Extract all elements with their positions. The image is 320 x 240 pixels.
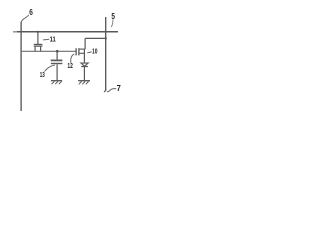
node: junction of transistor Q11 gate with bus [37,31,39,33]
transistor Q11 drain stub [40,47,42,52]
wire: left rail (net 6) [20,22,22,111]
right rail bottom hook [104,89,106,92]
svg-text:13: 13 [40,70,45,79]
svg-text:6: 6 [29,8,33,17]
ground under C13 [51,81,62,85]
transistor Q10 bottom stub [80,52,85,54]
label 10 leader [87,52,91,53]
label 7 leader [107,89,116,92]
diode D12 top lead [83,49,85,62]
label 13 leader [45,65,55,72]
capacitor C13 bottom lead [56,64,58,80]
svg-text:12: 12 [67,61,73,70]
diode D12 triangle [81,63,88,66]
svg-text:10: 10 [92,47,98,56]
transistor Q11 gate stub [37,32,39,44]
diode D12 cathode bar [81,66,88,68]
transistor Q10 gate bar [75,48,77,55]
capacitor C13 top plate [51,59,63,61]
transistor Q10 channel bar [78,48,80,55]
node: junction dot on source line [56,50,59,53]
svg-text:11: 11 [50,35,57,44]
wire: horizontal to right rail [85,37,106,39]
bus line (top horizontal, net 5) [13,31,118,33]
transistor Q11 gate bar [34,43,43,45]
label 5 leader [111,19,113,27]
capacitor C13 bottom plate [51,63,63,65]
capacitor C13 top lead [56,51,58,59]
label 6 leader [21,15,28,22]
transistor Q11 channel bar [34,45,43,47]
diode D12 bottom lead [83,67,85,81]
label 12 leader [71,54,75,63]
wire: right rail (net 7) [105,17,107,91]
ground under C12 [78,81,90,85]
svg-text:5: 5 [111,12,115,21]
wire: source line [21,50,76,52]
transistor Q10 top stub [80,48,85,50]
wire: Q10 drain up [84,38,86,49]
svg-text:7: 7 [117,84,122,93]
label 11 leader [43,39,49,40]
transistor Q11 source stub [34,47,36,52]
node: junction of wire with right rail [105,37,107,39]
